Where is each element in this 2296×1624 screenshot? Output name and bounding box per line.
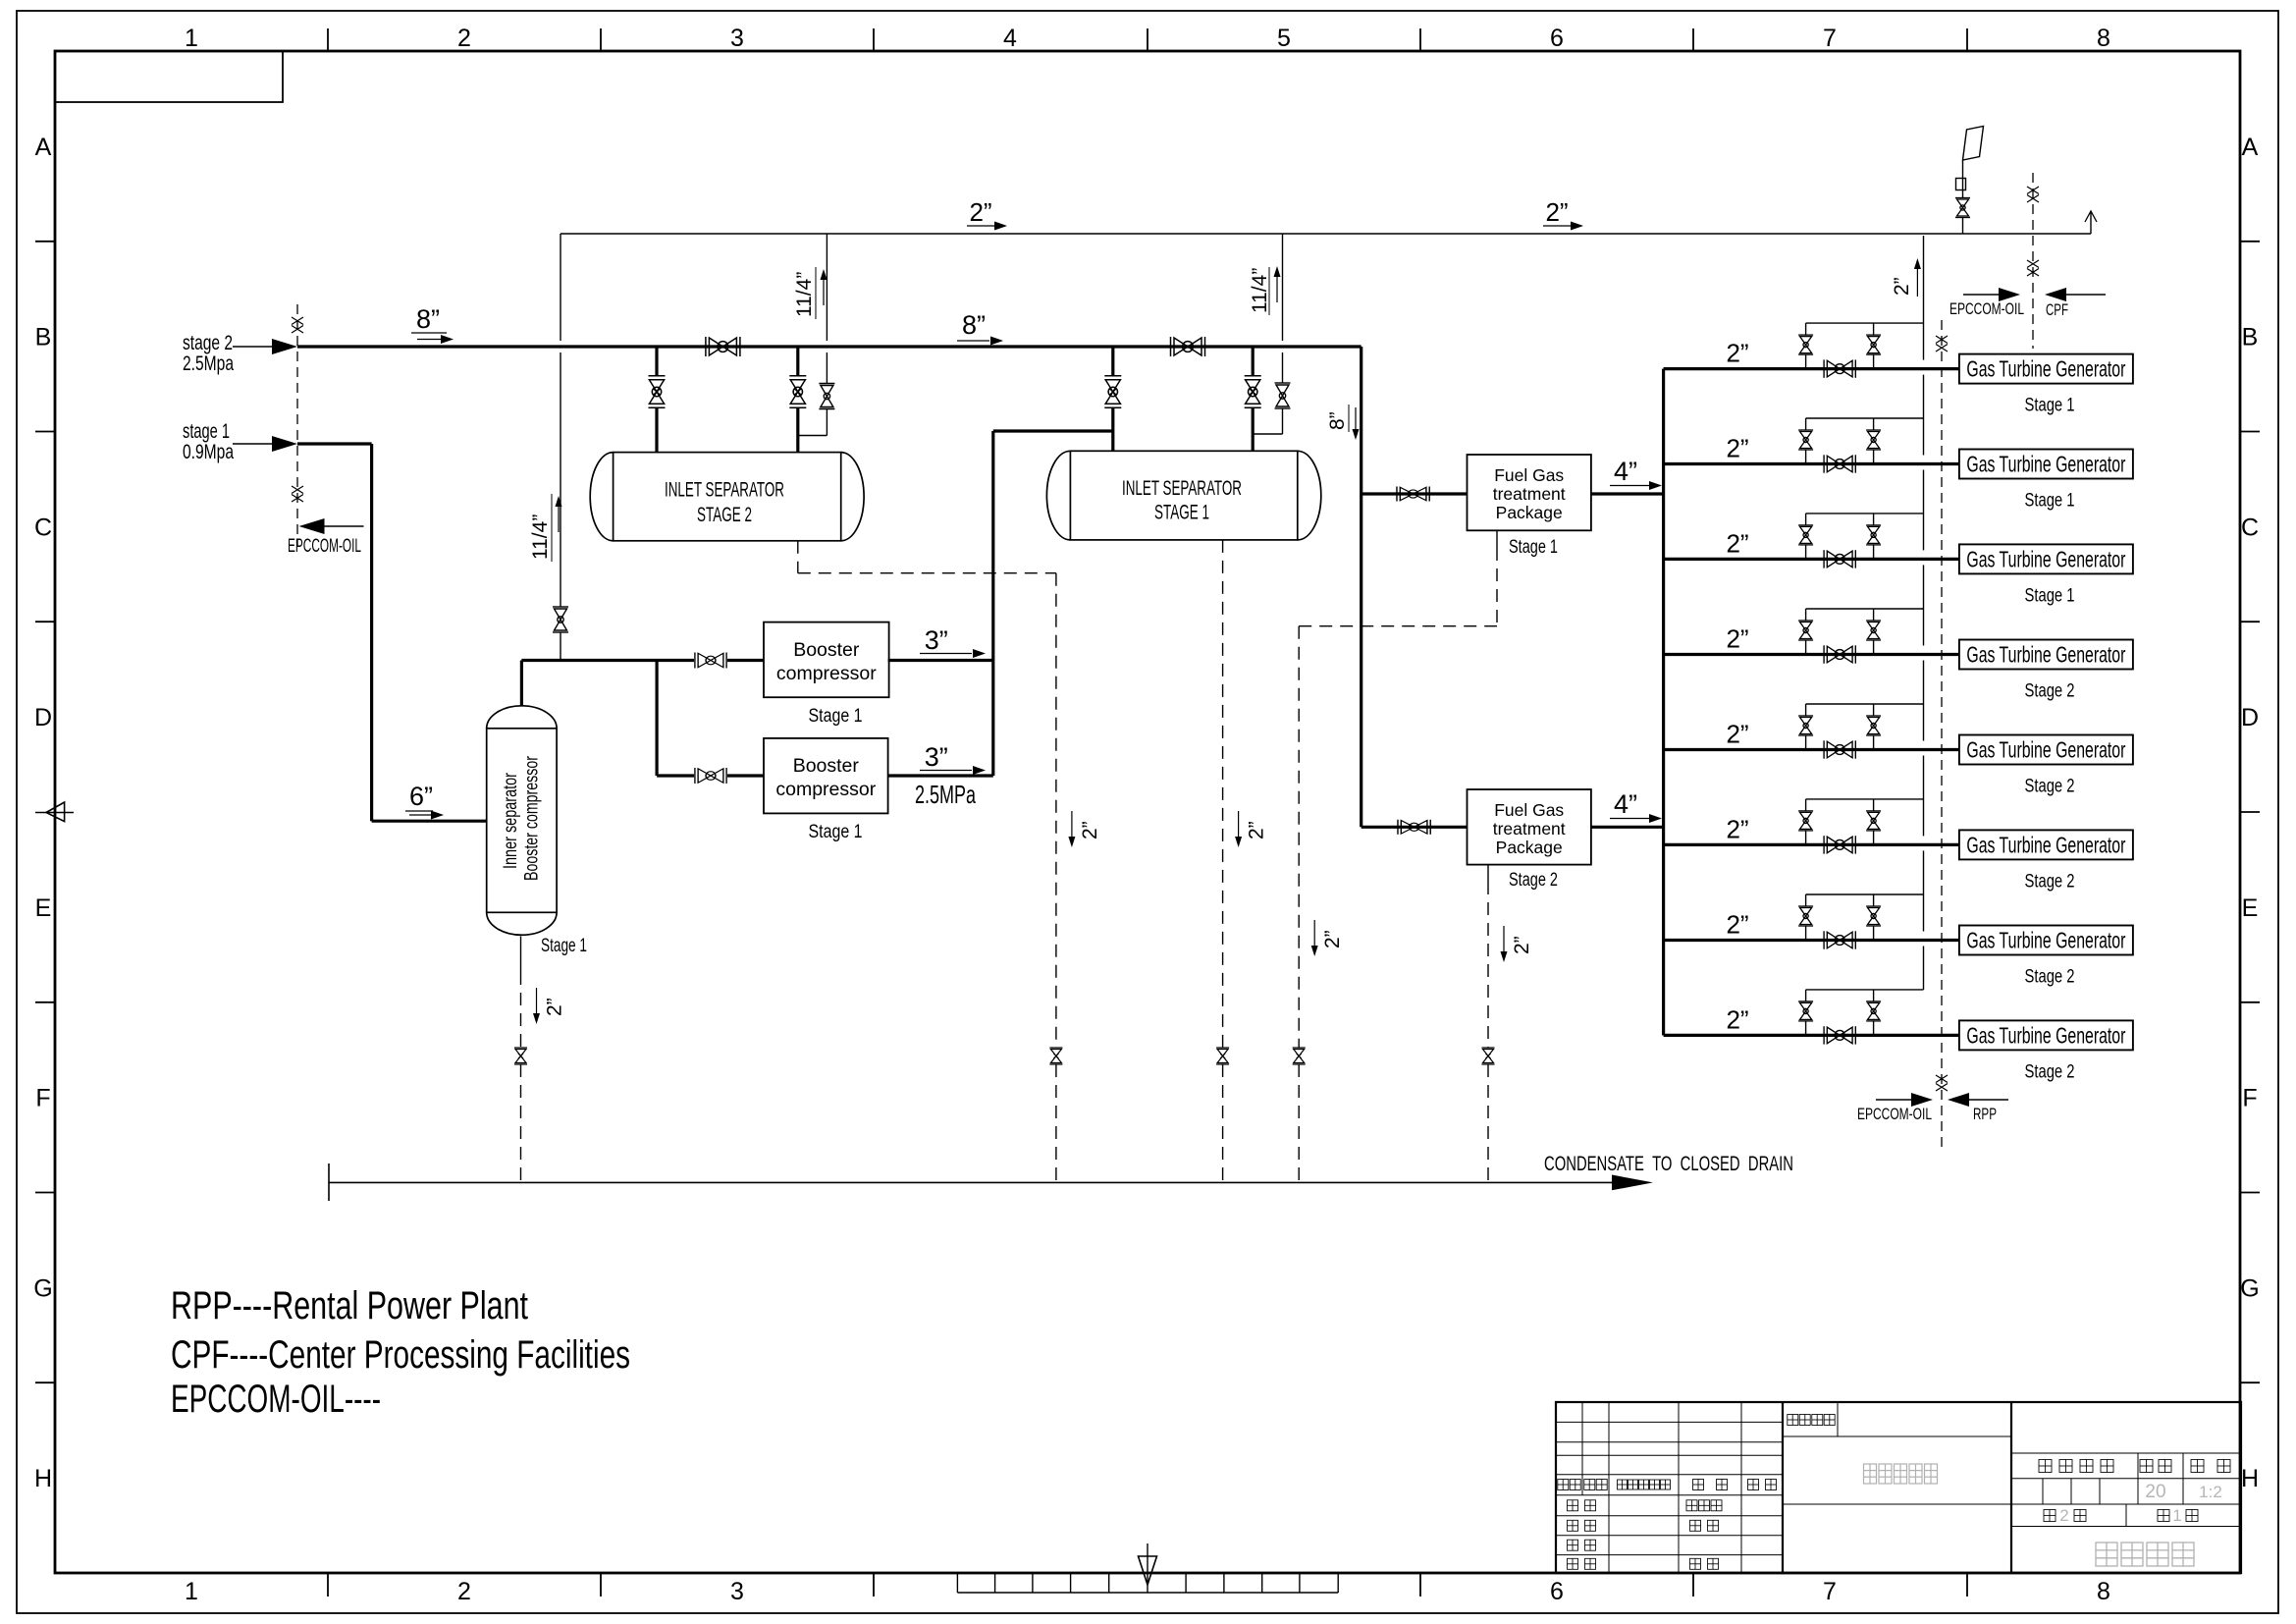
svg-text:Package: Package	[1496, 503, 1563, 522]
svg-text:Gas Turbine Generator: Gas Turbine Generator	[1966, 356, 2125, 382]
svg-text:G: G	[2240, 1274, 2259, 1302]
svg-text:A: A	[35, 134, 52, 161]
svg-text:CPF----Center Processing Facil: CPF----Center Processing Facilities	[171, 1333, 630, 1377]
svg-text:EPCCOM-OIL----: EPCCOM-OIL----	[171, 1378, 381, 1421]
svg-text:6”: 6”	[409, 782, 433, 811]
svg-text:2”: 2”	[969, 197, 991, 227]
svg-text:Gas Turbine Generator: Gas Turbine Generator	[1966, 737, 2125, 763]
svg-text:2”: 2”	[1726, 1004, 1748, 1034]
svg-text:Stage 1: Stage 1	[2025, 491, 2075, 512]
svg-text:A: A	[2242, 134, 2259, 161]
svg-text:B: B	[2242, 324, 2259, 352]
svg-text:D: D	[2241, 704, 2259, 731]
svg-text:2”: 2”	[1246, 821, 1268, 839]
svg-text:RPP: RPP	[1973, 1105, 1997, 1123]
svg-text:7: 7	[1823, 25, 1837, 52]
svg-text:11/4”: 11/4”	[529, 514, 552, 560]
svg-text:F: F	[2242, 1085, 2257, 1112]
svg-text:4”: 4”	[1614, 457, 1637, 486]
svg-text:2”: 2”	[1321, 930, 1344, 948]
svg-text:INLET SEPARATOR: INLET SEPARATOR	[665, 478, 784, 502]
svg-text:Stage 1: Stage 1	[809, 822, 863, 842]
svg-text:E: E	[35, 894, 52, 922]
svg-text:2: 2	[2059, 1506, 2068, 1525]
svg-text:8”: 8”	[416, 304, 440, 334]
svg-text:Booster compressor: Booster compressor	[522, 756, 543, 881]
svg-text:treatment: treatment	[1493, 484, 1566, 504]
svg-text:2”: 2”	[1511, 936, 1533, 954]
svg-text:2”: 2”	[1079, 821, 1101, 839]
svg-text:Stage 2: Stage 2	[2025, 967, 2075, 988]
svg-text:Gas Turbine Generator: Gas Turbine Generator	[1966, 928, 2125, 953]
svg-text:8: 8	[2097, 25, 2110, 52]
svg-text:Stage 2: Stage 2	[2025, 681, 2075, 702]
svg-text:Gas Turbine Generator: Gas Turbine Generator	[1966, 452, 2125, 477]
svg-text:Stage 1: Stage 1	[809, 706, 863, 727]
svg-text:4: 4	[1003, 25, 1017, 52]
svg-text:Stage 1: Stage 1	[2025, 585, 2075, 606]
svg-text:Gas Turbine Generator: Gas Turbine Generator	[1966, 642, 2125, 668]
svg-text:Booster: Booster	[793, 755, 860, 777]
svg-text:2”: 2”	[1726, 720, 1748, 749]
svg-text:8”: 8”	[1326, 411, 1349, 430]
svg-text:Fuel Gas: Fuel Gas	[1494, 465, 1564, 485]
svg-text:2”: 2”	[1726, 624, 1748, 654]
svg-text:1: 1	[185, 1578, 198, 1605]
svg-text:Gas Turbine Generator: Gas Turbine Generator	[1966, 832, 2125, 857]
svg-text:Stage 2: Stage 2	[2025, 1061, 2075, 1082]
svg-text:2: 2	[457, 1578, 471, 1605]
svg-text:STAGE 2: STAGE 2	[697, 504, 752, 526]
svg-text:Gas Turbine Generator: Gas Turbine Generator	[1966, 1022, 2125, 1048]
svg-text:C: C	[34, 514, 52, 541]
svg-text:3”: 3”	[925, 625, 948, 655]
svg-text:3”: 3”	[925, 742, 948, 772]
svg-text:2”: 2”	[1726, 339, 1748, 368]
svg-text:Inner separator: Inner separator	[501, 772, 521, 869]
svg-text:8”: 8”	[962, 310, 986, 340]
svg-text:2”: 2”	[1726, 910, 1748, 940]
svg-text:2.5Mpa: 2.5Mpa	[183, 352, 234, 375]
svg-text:0.9Mpa: 0.9Mpa	[183, 441, 234, 463]
svg-text:6: 6	[1550, 25, 1564, 52]
svg-text:20: 20	[2145, 1482, 2165, 1502]
svg-text:stage 2: stage 2	[183, 332, 233, 354]
svg-text:G: G	[33, 1274, 52, 1302]
svg-text:Fuel Gas: Fuel Gas	[1494, 800, 1564, 820]
svg-text:2”: 2”	[544, 998, 566, 1016]
svg-text:1:2: 1:2	[2199, 1483, 2222, 1501]
svg-text:5: 5	[1277, 25, 1291, 52]
svg-text:F: F	[35, 1085, 50, 1112]
svg-text:H: H	[34, 1465, 52, 1492]
svg-text:Stage 2: Stage 2	[1509, 870, 1558, 891]
svg-text:2.5MPa: 2.5MPa	[915, 780, 976, 809]
svg-text:INLET SEPARATOR: INLET SEPARATOR	[1122, 476, 1242, 500]
svg-text:stage 1: stage 1	[183, 420, 230, 443]
svg-text:8: 8	[2097, 1578, 2110, 1605]
svg-text:Stage 2: Stage 2	[2025, 777, 2075, 797]
svg-text:2”: 2”	[1891, 277, 1913, 296]
svg-text:compressor: compressor	[775, 779, 876, 800]
svg-text:E: E	[2242, 894, 2259, 922]
svg-text:2”: 2”	[1726, 814, 1748, 843]
svg-text:Stage 1: Stage 1	[2025, 396, 2075, 416]
svg-text:D: D	[34, 704, 52, 731]
svg-text:treatment: treatment	[1493, 819, 1566, 839]
svg-text:3: 3	[730, 25, 744, 52]
svg-text:Stage 1: Stage 1	[541, 936, 587, 956]
svg-text:Booster: Booster	[793, 639, 860, 661]
svg-text:11/4”: 11/4”	[793, 272, 816, 317]
svg-text:compressor: compressor	[776, 663, 877, 684]
svg-text:3: 3	[730, 1578, 744, 1605]
svg-text:2”: 2”	[1726, 528, 1748, 558]
svg-text:7: 7	[1823, 1578, 1837, 1605]
svg-text:RPP----Rental Power Plant: RPP----Rental Power Plant	[171, 1284, 528, 1327]
svg-text:B: B	[35, 324, 52, 352]
svg-text:EPCCOM-OIL: EPCCOM-OIL	[1857, 1105, 1932, 1123]
svg-text:EPCCOM-OIL: EPCCOM-OIL	[1949, 299, 2024, 318]
svg-text:Stage 1: Stage 1	[1509, 537, 1558, 558]
svg-text:11/4”: 11/4”	[1249, 268, 1271, 313]
svg-text:1: 1	[2172, 1506, 2181, 1525]
svg-text:6: 6	[1550, 1578, 1564, 1605]
svg-text:STAGE 1: STAGE 1	[1154, 502, 1209, 524]
svg-text:4”: 4”	[1614, 789, 1637, 819]
svg-text:Stage 2: Stage 2	[2025, 871, 2075, 892]
svg-text:C: C	[2241, 514, 2259, 541]
svg-text:2: 2	[457, 25, 471, 52]
svg-text:CONDENSATE TO CLOSED DRAIN: CONDENSATE TO CLOSED DRAIN	[1544, 1152, 1793, 1175]
svg-text:H: H	[2241, 1465, 2259, 1492]
svg-text:2”: 2”	[1545, 197, 1568, 227]
svg-text:EPCCOM-OIL: EPCCOM-OIL	[288, 536, 361, 557]
svg-text:Package: Package	[1496, 838, 1563, 857]
svg-text:Gas Turbine Generator: Gas Turbine Generator	[1966, 546, 2125, 571]
svg-text:1: 1	[185, 25, 198, 52]
svg-text:2”: 2”	[1726, 434, 1748, 463]
svg-text:CPF: CPF	[2046, 300, 2068, 319]
